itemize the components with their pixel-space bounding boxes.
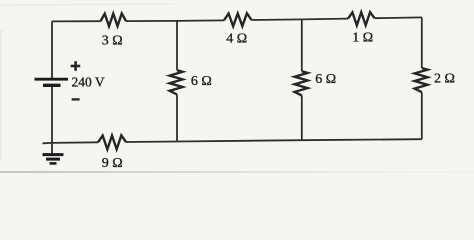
svg-text:2 Ω: 2 Ω (434, 71, 455, 86)
svg-text:6 Ω: 6 Ω (191, 74, 212, 89)
svg-text:6 Ω: 6 Ω (315, 72, 336, 87)
svg-text:3 Ω: 3 Ω (102, 33, 123, 48)
svg-text:240 V: 240 V (72, 74, 105, 89)
svg-text:9 Ω: 9 Ω (102, 156, 123, 171)
svg-text:4 Ω: 4 Ω (226, 31, 247, 46)
svg-text:1 Ω: 1 Ω (352, 31, 373, 46)
